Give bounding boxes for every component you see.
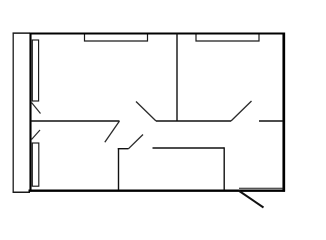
inner room top edge right part [153, 147, 225, 149]
interior horizontal wall left segment [31, 120, 120, 122]
right wall [282, 33, 285, 192]
bottom wall [29, 190, 286, 192]
window W4 swing tick [32, 130, 41, 140]
door leaf D4 (inner room door) [129, 135, 144, 149]
balcony strip left edge [12, 33, 14, 193]
interior vertical wall [176, 34, 178, 122]
window W4 on left wall (lower) [32, 143, 39, 186]
interior horizontal wall middle segment [156, 120, 231, 122]
interior horizontal wall right segment [259, 120, 283, 122]
door leaf D1 (hall to lower-left room) [105, 121, 120, 142]
balcony strip top edge [13, 32, 30, 34]
balcony strip bottom edge [13, 191, 30, 193]
window W1 on top wall [85, 35, 148, 42]
window W2 on top wall [196, 35, 259, 42]
door leaf D3 (hall to upper-right room) [231, 101, 252, 121]
entrance threshold line [239, 187, 284, 189]
left wall [29, 33, 31, 192]
entrance door leaf [239, 191, 264, 208]
window W3 swing tick [32, 103, 41, 114]
door leaf D2 (hall to upper-left room) [136, 102, 156, 122]
inner room top edge left part [118, 148, 129, 150]
inner room right wall [223, 147, 225, 190]
top wall [30, 32, 286, 34]
window W3 on left wall (upper) [32, 40, 38, 101]
inner room left wall [118, 148, 120, 190]
